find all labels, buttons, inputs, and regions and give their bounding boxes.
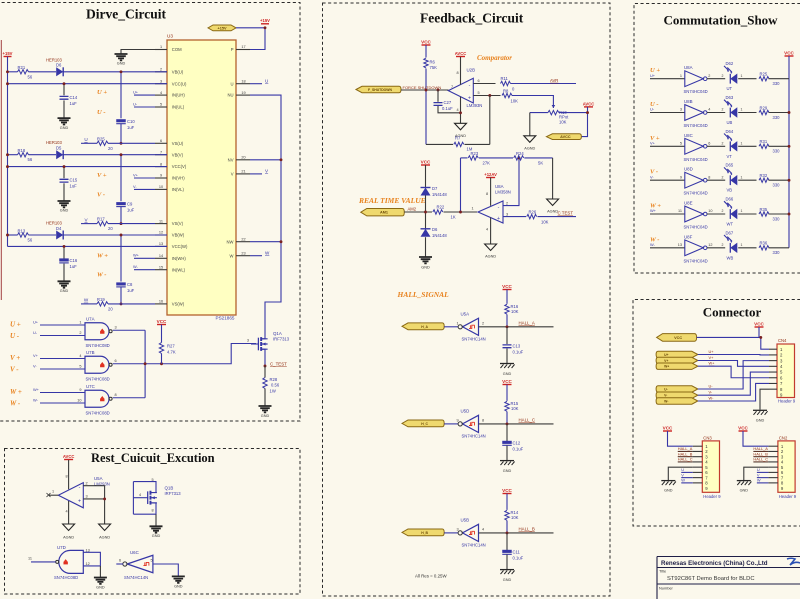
svg-text:1uF: 1uF — [127, 208, 135, 213]
svg-text:56: 56 — [28, 74, 33, 79]
svg-text:AGND: AGND — [485, 255, 496, 259]
wire IN(UH) — [134, 94, 155, 96]
wire U7A output — [113, 329, 145, 331]
svg-text:SN74HC08D: SN74HC08D — [86, 343, 110, 348]
resistor R35 330 — [759, 212, 769, 216]
ground GND (CN3) — [661, 480, 675, 482]
svg-text:R11: R11 — [501, 76, 509, 81]
svg-text:GND: GND — [96, 586, 105, 590]
svg-text:+: + — [78, 498, 81, 504]
svg-text:U6C: U6C — [130, 550, 139, 555]
svg-text:D62: D62 — [726, 61, 734, 66]
svg-text:U8E: U8E — [684, 201, 693, 206]
svg-text:W-: W- — [133, 264, 139, 269]
svg-text:SN74HC04D: SN74HC04D — [684, 258, 708, 263]
U3 pin 18 (U) stub — [236, 83, 250, 85]
resistor R26 10K — [527, 214, 537, 218]
port V- (lower group) — [656, 392, 698, 398]
svg-text:UT: UT — [727, 86, 733, 91]
svg-text:330: 330 — [773, 149, 781, 154]
svg-text:U8A: U8A — [684, 65, 693, 70]
svg-text:AVCC: AVCC — [560, 135, 571, 139]
svg-text:2: 2 — [722, 209, 724, 213]
svg-text:C TEST: C TEST — [558, 211, 574, 216]
resistor R21 56 — [18, 70, 29, 74]
junction rail — [788, 145, 791, 148]
port W- (lower group) — [656, 398, 698, 404]
svg-text:-: - — [79, 484, 81, 490]
wire U7C input A — [40, 392, 85, 394]
svg-text:V -: V - — [97, 191, 105, 198]
svg-text:1: 1 — [457, 321, 459, 325]
wire CN4 pin8 to GND — [760, 389, 769, 409]
U3 pin 23 (W) stub — [236, 255, 250, 257]
svg-text:HALL_C: HALL_C — [519, 417, 536, 422]
resistor R31 330 — [759, 144, 769, 148]
wire LED to R32 — [738, 179, 756, 181]
svg-text:C10: C10 — [127, 119, 135, 124]
svg-text:12: 12 — [159, 231, 163, 235]
svg-text:U7D: U7D — [57, 545, 66, 550]
U3 pin 2 (VB(U)) stub — [155, 71, 167, 73]
svg-text:4.7K: 4.7K — [167, 350, 176, 355]
wire VCC to CN4 pin1 — [697, 336, 761, 338]
wire U8A to LED — [707, 78, 725, 80]
resistor R7 1M — [454, 142, 464, 146]
svg-text:HALL_A: HALL_A — [519, 320, 535, 325]
svg-text:GND: GND — [503, 578, 512, 582]
diode D7 1N4148 — [425, 165, 427, 188]
svg-text:NU: NU — [227, 93, 233, 98]
junction rail VB(W) — [6, 234, 9, 237]
op-amp U8A LM358N — [478, 201, 503, 223]
svg-text:1: 1 — [680, 74, 682, 78]
svg-text:8: 8 — [708, 175, 710, 179]
svg-text:U5D: U5D — [461, 408, 470, 413]
resistor R29 330 — [759, 110, 769, 114]
wire H_A to inverter — [444, 326, 458, 328]
svg-text:3: 3 — [160, 79, 162, 83]
resistor R19 20 — [97, 302, 108, 306]
wire gate output bus — [144, 330, 146, 398]
svg-text:D67: D67 — [726, 230, 734, 235]
svg-text:Feedback_Circuit: Feedback_Circuit — [420, 11, 524, 26]
junction VS(U) boot — [120, 142, 123, 145]
port U+ (upper group) — [656, 351, 698, 357]
wire HALL_C row — [479, 423, 554, 425]
svg-text:VCC: VCC — [502, 284, 512, 289]
junction rail — [788, 179, 791, 182]
svg-text:U8A: U8A — [495, 184, 504, 189]
svg-text:330: 330 — [773, 250, 781, 255]
svg-text:H_B: H_B — [421, 531, 428, 535]
wire NW to bus — [250, 241, 281, 243]
svg-text:11: 11 — [678, 209, 682, 213]
ground GND (R28) — [259, 406, 272, 412]
svg-text:7: 7 — [160, 150, 162, 154]
svg-text:8: 8 — [115, 393, 117, 397]
U3 pin 4 (IN(UH)) stub — [155, 94, 167, 96]
svg-text:U5A: U5A — [461, 311, 470, 316]
port H_A — [402, 323, 444, 330]
wire LED to R31 — [738, 145, 756, 147]
svg-text:Commutation_Show: Commutation_Show — [663, 13, 778, 28]
capacitor C14 1uF — [63, 84, 65, 96]
power VCC (commutation rail) — [785, 55, 794, 57]
junction VCC(W) cap — [63, 245, 66, 248]
junction HALL_C — [506, 422, 509, 425]
svg-text:V+: V+ — [709, 355, 715, 360]
svg-text:U-: U- — [709, 384, 714, 389]
wire U8A in+ row — [503, 216, 526, 218]
svg-text:U8C: U8C — [684, 133, 693, 138]
svg-text:U: U — [265, 78, 268, 83]
svg-text:6: 6 — [478, 79, 480, 83]
svg-text:IN(VH): IN(VH) — [172, 176, 185, 181]
resistor R27 4.7K — [161, 325, 163, 343]
svg-text:4: 4 — [486, 228, 488, 232]
svg-text:1: 1 — [79, 321, 81, 325]
ground GND (C15) — [58, 201, 71, 207]
svg-text:1uF: 1uF — [127, 288, 135, 293]
svg-text:D6: D6 — [432, 227, 438, 232]
wire R11 to AVR — [511, 83, 577, 85]
svg-text:R13: R13 — [18, 228, 26, 233]
transistor Q1B IRF7313 — [132, 482, 134, 515]
svg-text:VCC: VCC — [674, 336, 682, 340]
wire feedback row — [461, 157, 468, 159]
svg-text:F_SHUTDOWN: F_SHUTDOWN — [368, 88, 392, 92]
svg-text:10K: 10K — [559, 119, 567, 124]
capacitor C16 1uF — [63, 246, 65, 258]
svg-text:C11: C11 — [513, 549, 521, 554]
svg-text:W: W — [265, 250, 270, 255]
svg-text:GND: GND — [503, 372, 512, 376]
wire VB(U) row — [8, 71, 18, 73]
svg-text:1N4148: 1N4148 — [432, 192, 447, 197]
svg-text:HALL_C: HALL_C — [678, 457, 693, 462]
Feedback_Circuit section border (dashed) — [323, 3, 611, 596]
node W (pin23) — [250, 255, 262, 257]
svg-text:5K: 5K — [538, 161, 543, 166]
power AVCC (U5A) — [64, 459, 73, 461]
wire VCC(U) row — [8, 83, 168, 85]
wire R25 to rail — [769, 78, 790, 80]
wire R36 to rail — [769, 247, 790, 249]
svg-text:10K: 10K — [511, 98, 519, 103]
svg-text:1uF: 1uF — [70, 184, 78, 189]
resistor R16 10K — [506, 290, 508, 304]
svg-text:W-: W- — [650, 242, 656, 247]
power +15V (left rail) — [4, 56, 12, 58]
wire CN2 pin5 to GND — [744, 467, 769, 480]
ground GND (CN2) — [737, 480, 751, 482]
wire U7C output — [113, 397, 145, 399]
wire H_C to inverter — [444, 423, 458, 425]
svg-text:GND: GND — [117, 62, 126, 66]
junction R27 — [160, 362, 163, 365]
svg-text:-: - — [469, 82, 471, 88]
junction U5A inputs — [103, 497, 106, 500]
svg-text:C12: C12 — [513, 440, 521, 445]
svg-text:2: 2 — [722, 108, 724, 112]
LED D66 (WT) — [730, 209, 737, 219]
junction rail VCC(U) — [6, 82, 9, 85]
wire R6 to feedback row — [425, 90, 427, 144]
inverter U6C SN74HC14N — [127, 555, 153, 573]
svg-text:D5: D5 — [56, 146, 62, 151]
svg-text:8: 8 — [152, 509, 154, 513]
svg-text:V-: V- — [664, 394, 667, 398]
wire U8F to LED — [707, 247, 725, 249]
junction rail VCC(V) — [6, 165, 9, 168]
wire U V W to CN2 — [757, 471, 769, 473]
svg-text:GND: GND — [60, 209, 69, 213]
svg-text:11: 11 — [159, 219, 163, 223]
svg-text:4: 4 — [139, 493, 141, 497]
svg-text:1: 1 — [741, 243, 743, 247]
svg-text:U+: U+ — [33, 320, 39, 325]
resistor R6 75K — [425, 45, 427, 58]
power +15V (near P) — [261, 23, 269, 25]
wire COM to GND — [121, 50, 155, 54]
svg-text:W-: W- — [664, 400, 668, 404]
svg-text:C27: C27 — [444, 100, 452, 105]
svg-text:3: 3 — [457, 527, 459, 531]
wire U7B output (main line) — [113, 344, 256, 364]
svg-text:VS(W): VS(W) — [172, 302, 185, 307]
svg-text:HER103: HER103 — [46, 221, 62, 226]
svg-text:C_TEST: C_TEST — [270, 361, 287, 366]
svg-text:SN74HC08D: SN74HC08D — [86, 411, 110, 416]
svg-text:SN74HC04D: SN74HC04D — [684, 225, 708, 230]
svg-text:18: 18 — [241, 79, 245, 83]
svg-text:AM1: AM1 — [380, 211, 388, 215]
svg-text:W: W — [681, 478, 685, 483]
svg-text:R25: R25 — [760, 72, 768, 77]
svg-text:7: 7 — [451, 85, 453, 89]
wire U8E input — [650, 213, 685, 215]
ground AGND (U5A inputs) — [99, 524, 111, 531]
svg-text:Header 9: Header 9 — [779, 494, 797, 499]
svg-text:U+: U+ — [709, 349, 715, 354]
svg-text:+: + — [468, 96, 471, 102]
wire LED to R35 — [738, 213, 756, 215]
resistor R14 10K — [506, 494, 508, 510]
svg-text:VB(V): VB(V) — [172, 152, 184, 157]
wire U5A V- pin — [68, 501, 70, 524]
svg-text:R7: R7 — [455, 136, 461, 141]
wire U7A input A — [40, 324, 85, 326]
svg-text:CN3: CN3 — [703, 435, 712, 440]
svg-text:C16: C16 — [70, 258, 78, 263]
svg-text:1N4148: 1N4148 — [432, 233, 447, 238]
title block frame — [657, 557, 800, 599]
svg-text:16: 16 — [159, 300, 163, 304]
wire U8B to LED — [707, 112, 725, 114]
ground AGND (R24) — [547, 199, 559, 206]
svg-text:U7C: U7C — [86, 384, 95, 389]
wire LED to R25 — [738, 78, 756, 80]
svg-text:-: - — [498, 204, 500, 210]
wire F_SHUTDOWN to comparator — [401, 89, 449, 91]
sheet border left edge — [0, 40, 2, 300]
wire V- to pin5 — [698, 372, 769, 395]
wire HALL nets to CN3 — [678, 450, 693, 452]
svg-text:U: U — [757, 467, 760, 472]
junction NV bus — [280, 158, 283, 161]
svg-text:U +: U + — [10, 321, 21, 329]
svg-text:1uF: 1uF — [127, 125, 135, 130]
svg-text:R21: R21 — [18, 65, 26, 70]
svg-text:13: 13 — [678, 243, 682, 247]
svg-text:VCC: VCC — [502, 379, 512, 384]
svg-text:H_C: H_C — [421, 422, 428, 426]
connector CN3 Header 9 — [702, 441, 719, 492]
ground GND (C16) — [58, 281, 71, 287]
LED D62 (UT) — [730, 74, 737, 84]
junction C_TEST — [264, 365, 267, 368]
diode D4 HER103 — [56, 231, 63, 240]
svg-text:U8B: U8B — [684, 99, 693, 104]
svg-text:LM358N: LM358N — [495, 190, 511, 195]
ground GND (C11) — [500, 569, 514, 571]
svg-text:IRF7313: IRF7313 — [273, 337, 290, 342]
svg-text:4: 4 — [160, 91, 162, 95]
svg-text:6: 6 — [160, 139, 162, 143]
ground GND (C14) — [58, 118, 71, 124]
svg-text:NV: NV — [228, 157, 234, 162]
svg-text:5: 5 — [79, 365, 81, 369]
power VCC (CN4) — [755, 326, 764, 328]
svg-text:V: V — [231, 172, 234, 177]
svg-text:8: 8 — [482, 418, 484, 422]
svg-text:R28: R28 — [270, 377, 278, 382]
inverter U5B SN74HC14N — [463, 524, 479, 541]
power VCC (diodes) — [421, 164, 430, 166]
resistor R36 330 — [759, 246, 769, 250]
svg-text:4: 4 — [66, 510, 68, 514]
wire NU bus — [250, 95, 281, 325]
svg-text:NW: NW — [227, 239, 234, 244]
svg-text:VB(U): VB(U) — [172, 69, 184, 74]
svg-text:VB(W): VB(W) — [172, 233, 185, 238]
junction fb out — [459, 211, 462, 214]
wire U7D inputs — [83, 552, 100, 566]
svg-text:10: 10 — [159, 185, 163, 189]
svg-text:U8D: U8D — [684, 167, 693, 172]
U3 pin 16 (VS(W)) stub — [155, 303, 167, 305]
resistor R24 5K — [514, 156, 524, 160]
svg-text:VS(U): VS(U) — [172, 141, 184, 146]
svg-text:D7: D7 — [432, 186, 438, 191]
op-amp driver IC U3 body — [167, 40, 236, 315]
svg-text:5: 5 — [478, 91, 480, 95]
svg-text:GND: GND — [503, 469, 512, 473]
svg-text:U: U — [230, 81, 233, 86]
svg-text:U: U — [681, 467, 684, 472]
wire hysteresis R7 — [489, 96, 491, 145]
port VCC — [657, 334, 697, 342]
svg-text:C15: C15 — [70, 178, 78, 183]
svg-text:VCC(W): VCC(W) — [172, 244, 188, 249]
svg-text:SN74HC14N: SN74HC14N — [462, 542, 486, 547]
ground GND (COM) — [115, 54, 128, 60]
wire V+ to pin4 — [698, 361, 769, 367]
wire VS(W) row — [81, 303, 97, 305]
wire U7C input B — [40, 402, 85, 404]
svg-text:R22: R22 — [437, 205, 445, 210]
capacitor C10 1uF (bootstrap) — [120, 72, 122, 119]
svg-text:W+: W+ — [664, 365, 669, 369]
svg-text:FORCE SHUTDOWN: FORCE SHUTDOWN — [403, 85, 442, 90]
svg-text:0.56: 0.56 — [271, 383, 280, 388]
wire in+ row — [473, 95, 500, 97]
svg-text:2: 2 — [708, 74, 710, 78]
svg-text:AGND: AGND — [63, 536, 74, 540]
port U- (lower group) — [656, 386, 698, 392]
wire IN(WL) — [134, 269, 155, 271]
wire R31 to rail — [769, 145, 790, 147]
svg-text:Q1A: Q1A — [273, 331, 282, 336]
svg-text:AGND: AGND — [524, 147, 535, 151]
wire VCC to CN3 pin1 — [668, 431, 693, 446]
svg-text:D4: D4 — [56, 226, 62, 231]
svg-text:UB: UB — [727, 120, 733, 125]
svg-text:10K: 10K — [511, 406, 519, 411]
svg-text:10: 10 — [708, 209, 712, 213]
U3 pin 9 (IN(VH)) stub — [155, 177, 167, 179]
wire U6C output — [153, 564, 178, 576]
wire U8A V- pin — [490, 218, 492, 245]
wire in- row — [473, 83, 495, 85]
ground GND (Q1B) — [150, 526, 163, 532]
junction gate bus — [144, 362, 147, 365]
svg-text:4: 4 — [708, 108, 710, 112]
wire R32 to rail — [769, 179, 790, 181]
AND gate U7D SN74HC08D (mirrored) — [59, 550, 84, 573]
wire IN(WH) — [134, 257, 155, 259]
svg-text:WB: WB — [727, 255, 734, 260]
svg-text:5: 5 — [151, 559, 153, 563]
svg-text:Connector: Connector — [703, 305, 762, 320]
wire R29 to rail — [769, 112, 790, 114]
svg-text:U7A: U7A — [86, 316, 95, 321]
svg-text:1uF: 1uF — [70, 101, 78, 106]
wire LED to R36 — [738, 247, 756, 249]
ground GND (CN4) — [753, 409, 767, 411]
node U (pin18) — [250, 83, 262, 85]
svg-text:Dirve_Circuit: Dirve_Circuit — [86, 7, 166, 22]
svg-text:AGND: AGND — [99, 536, 110, 540]
resistor R13 56 — [18, 233, 29, 237]
svg-text:VCC(U): VCC(U) — [172, 81, 187, 86]
svg-text:330: 330 — [773, 216, 781, 221]
junction VB(U) boot — [120, 70, 123, 73]
wire IN(UL) — [134, 106, 155, 108]
svg-text:3: 3 — [680, 108, 682, 112]
svg-text:U+: U+ — [133, 90, 139, 95]
svg-text:8: 8 — [457, 71, 459, 75]
svg-text:12: 12 — [708, 243, 712, 247]
U3 pin 1 (COM) stub — [155, 49, 167, 51]
wire AM1 row — [404, 211, 432, 213]
Dirve_Circuit section border (dashed) — [0, 3, 300, 422]
svg-text:W+: W+ — [650, 208, 657, 213]
op-amp U5A LM293N — [58, 483, 83, 508]
svg-text:R29: R29 — [760, 105, 768, 110]
junction pot right — [586, 111, 589, 114]
